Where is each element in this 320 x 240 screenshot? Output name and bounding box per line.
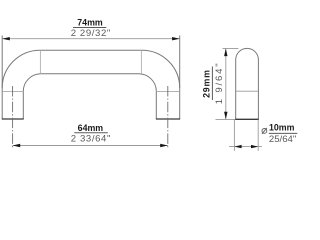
74mm arrow left — [2, 37, 10, 40]
tangent mark right (bend end on bar) — [140, 50, 142, 74]
29mm fraction bar (vertical) — [211, 67, 213, 101]
tangent mark left (bend end on bar) — [39, 50, 41, 74]
svg-text:1 9/64": 1 9/64" — [214, 62, 225, 105]
29mm arrow top — [224, 49, 227, 57]
handle front view: inner contour — [23, 74, 156, 119]
svg-text:2 33/64": 2 33/64" — [71, 134, 111, 145]
tangent mark right leg (bend end on leg) — [156, 91, 179, 93]
handle front view: right vertical edge + 74mm extension line — [179, 36, 181, 120]
tangent mark left leg (bend end on leg) — [2, 91, 23, 93]
svg-text:25/64": 25/64" — [269, 134, 296, 145]
10mm left extension line — [233, 119, 235, 150]
74mm dimension line — [2, 38, 180, 40]
10mm fraction bar — [269, 132, 298, 134]
left leg bottom edge — [2, 118, 24, 120]
svg-text:64mm: 64mm — [78, 123, 104, 133]
svg-text:74mm: 74mm — [77, 17, 103, 27]
64mm arrow left — [13, 144, 21, 147]
29mm arrow bottom — [224, 112, 227, 120]
left leg centerline — [12, 86, 14, 149]
svg-text:2 29/32": 2 29/32" — [71, 28, 111, 39]
64mm fraction bar — [74, 132, 108, 134]
10mm arrow left — [234, 145, 241, 148]
64mm arrow right — [160, 144, 168, 147]
side view bottom edge — [235, 118, 259, 120]
10mm dimension line — [229, 146, 262, 148]
29mm top extension line — [223, 48, 239, 50]
diameter symbol — [262, 128, 267, 134]
10mm right extension line — [257, 119, 259, 150]
side view body outline — [236, 48, 259, 119]
handle front view: outer contour (bends + top bar) — [2, 50, 180, 88]
right leg centerline — [167, 86, 169, 149]
svg-text:29mm: 29mm — [202, 69, 212, 98]
right leg bottom edge — [156, 118, 180, 120]
64mm dimension line — [13, 145, 168, 147]
handle front view: left vertical edge + 74mm extension line — [1, 36, 3, 120]
10mm arrow right — [251, 145, 258, 148]
side view mid joint line — [236, 90, 259, 92]
29mm dimension line — [225, 49, 227, 120]
svg-text:10mm: 10mm — [269, 123, 295, 133]
74mm arrow right — [172, 37, 180, 40]
74mm fraction bar — [73, 27, 106, 29]
29mm bottom extension line — [216, 118, 236, 120]
